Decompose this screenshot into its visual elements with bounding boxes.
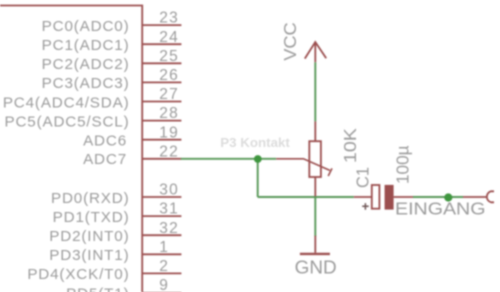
pin 1 stub: [142, 253, 181, 255]
svg-text:PC2(ADC2): PC2(ADC2): [42, 56, 130, 73]
wire horizontal to capacitor: [258, 196, 354, 198]
svg-text:PC3(ADC3): PC3(ADC3): [42, 75, 130, 92]
pin 22 stub: [142, 158, 181, 160]
pin 28 stub: [142, 120, 181, 122]
svg-text:26: 26: [159, 67, 179, 84]
svg-text:VCC: VCC: [280, 22, 300, 61]
svg-text:PD1(TXD): PD1(TXD): [53, 209, 130, 226]
potentiometer wiper arrow: [276, 159, 332, 176]
capacitor C1 right pin: [394, 196, 413, 198]
svg-text:C1: C1: [353, 167, 373, 188]
svg-text:31: 31: [159, 201, 179, 218]
svg-text:32: 32: [159, 220, 179, 237]
pin 23 stub: [142, 24, 181, 26]
svg-text:28: 28: [159, 105, 179, 122]
svg-text:ADC6: ADC6: [83, 133, 127, 150]
capacitor C1 right plate (filled): [385, 185, 394, 210]
svg-text:PC1(ADC1): PC1(ADC1): [42, 37, 130, 54]
wire pot bottom to GND: [314, 196, 316, 236]
svg-text:9: 9: [159, 277, 169, 292]
svg-text:10K: 10K: [340, 128, 360, 163]
svg-text:2: 2: [159, 258, 169, 275]
pin 19 stub: [142, 139, 181, 141]
svg-text:27: 27: [159, 86, 179, 103]
pin 31 stub: [142, 215, 181, 217]
svg-text:30: 30: [159, 182, 179, 199]
svg-text:22: 22: [159, 143, 179, 160]
connector socket arc: [487, 191, 494, 202]
svg-text:P3 Kontakt: P3 Kontakt: [220, 136, 290, 150]
svg-text:PD3(INT1): PD3(INT1): [49, 247, 129, 264]
svg-text:24: 24: [159, 29, 179, 46]
svg-text:19: 19: [159, 124, 179, 141]
capacitor plus sign: [362, 203, 369, 210]
svg-text:PD5(T1): PD5(T1): [66, 285, 129, 292]
capacitor C1 left pin: [354, 196, 371, 198]
pin 25 stub: [142, 62, 181, 64]
pin 26 stub: [142, 81, 181, 83]
svg-text:25: 25: [159, 48, 179, 65]
wire VCC to pot: [314, 62, 316, 121]
svg-text:1: 1: [159, 239, 169, 256]
svg-text:ADC7: ADC7: [83, 151, 127, 168]
pin 2 stub: [142, 272, 181, 274]
pin 27 stub: [142, 101, 181, 103]
connector pin EINGANG: [463, 196, 486, 198]
svg-text:PD2(INT0): PD2(INT0): [49, 228, 129, 245]
svg-text:GND: GND: [295, 258, 337, 278]
junction A dot: [254, 155, 262, 163]
GND pin: [314, 236, 316, 253]
potentiometer body: [309, 141, 321, 177]
potentiometer bottom pin: [314, 177, 316, 196]
potentiometer top pin: [314, 121, 316, 141]
VCC symbol arrow: [305, 42, 326, 62]
svg-text:PC0(ADC0): PC0(ADC0): [42, 18, 130, 35]
svg-text:EINGANG: EINGANG: [395, 198, 486, 218]
pin 30 stub: [142, 196, 181, 198]
junction B dot: [444, 193, 452, 201]
capacitor C1 left plate: [372, 185, 380, 209]
wire net ADC7: pin22 to junction A to pot wiper: [181, 158, 276, 160]
svg-text:PC5(ADC5/SCL): PC5(ADC5/SCL): [5, 113, 130, 130]
wire cap to connector: [413, 196, 463, 198]
svg-text:PC4(ADC4/SDA): PC4(ADC4/SDA): [3, 94, 130, 111]
svg-text:100µ: 100µ: [393, 146, 413, 185]
svg-text:PD4(XCK/T0): PD4(XCK/T0): [27, 266, 129, 283]
wire vertical drop from junction A: [257, 159, 259, 197]
pin 24 stub: [142, 43, 181, 45]
IC U1 body outline: [0, 6, 142, 292]
svg-text:PD0(RXD): PD0(RXD): [51, 190, 130, 207]
svg-text:23: 23: [159, 10, 179, 27]
GND bar: [300, 253, 330, 255]
pin 32 stub: [142, 234, 181, 236]
